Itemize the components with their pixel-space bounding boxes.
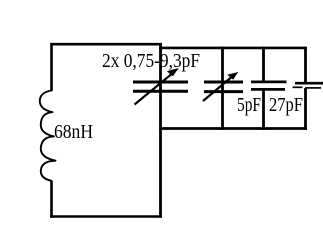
wire: main loop left edge lower segment xyxy=(50,181,53,218)
capacitor C3 5pF plates xyxy=(251,82,287,90)
wire: right box top edge xyxy=(159,47,307,50)
capacitor C2 adjustment arrow xyxy=(203,72,238,101)
wire: main loop right edge xyxy=(159,43,162,218)
wire: divider at x=263 upper segment xyxy=(262,47,265,82)
capacitor C2 variable plates xyxy=(204,82,243,92)
wire: right box right edge lower segment xyxy=(304,88,307,130)
wire: divider at x=222 xyxy=(221,47,224,130)
wire: main loop bottom edge xyxy=(50,215,162,218)
wire: right box right edge upper segment xyxy=(304,47,307,83)
wire: main loop left edge upper segment xyxy=(50,43,53,91)
wire: main loop top edge xyxy=(50,43,162,46)
svg-text:27pF: 27pF xyxy=(269,94,303,116)
wire: right box bottom edge xyxy=(159,127,307,130)
capacitor C4 27pF plates xyxy=(293,83,323,88)
inductor L 68nH coil xyxy=(40,91,56,181)
svg-text:68nH: 68nH xyxy=(54,121,93,143)
capacitor C1 adjustment arrow xyxy=(135,68,179,105)
wire: divider at x=263 lower segment xyxy=(262,90,265,130)
svg-text:2x 0,75-9,3pF: 2x 0,75-9,3pF xyxy=(102,50,200,72)
capacitor C1 variable 2x 0,75-9,3pF plates xyxy=(133,82,188,91)
svg-text:5pF: 5pF xyxy=(237,94,261,116)
